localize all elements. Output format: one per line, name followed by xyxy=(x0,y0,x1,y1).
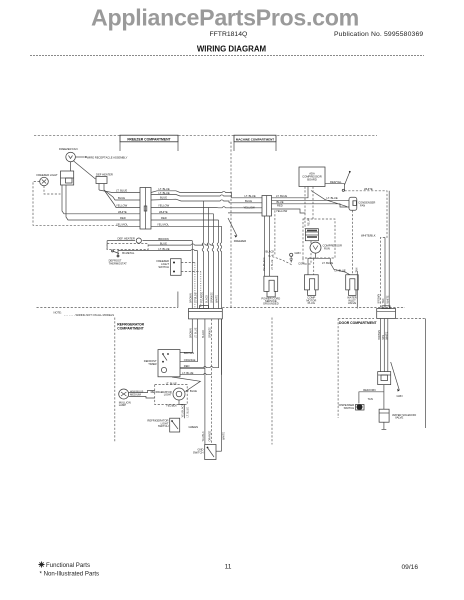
wires board to relay dashed xyxy=(305,187,313,229)
svg-text:* Non-Illustrated Parts: * Non-Illustrated Parts xyxy=(40,571,100,578)
title underline xyxy=(30,55,424,57)
svg-text:Functional Parts: Functional Parts xyxy=(46,562,90,569)
compressor plug P2 xyxy=(305,258,319,305)
svg-text:WHITE: WHITE xyxy=(222,432,225,440)
dispenser module DM1 xyxy=(378,372,391,385)
wires machine to door strip xyxy=(381,191,390,309)
svg-text:TAN: TAN xyxy=(368,397,373,401)
footer functional parts xyxy=(39,562,100,578)
refrigerator compartment label xyxy=(117,322,144,330)
cold control thermostat TH1 xyxy=(151,388,198,400)
svg-text:DEF HEATER: DEF HEATER xyxy=(96,173,113,177)
NOTE legend xyxy=(54,311,115,317)
dispenser switch SW6 xyxy=(339,403,364,410)
wire labels left of J1 xyxy=(116,189,128,227)
svg-text:PLUG: PLUG xyxy=(308,301,315,305)
svg-text:TAN: TAN xyxy=(382,298,385,303)
water solenoid valve V1 xyxy=(379,409,416,422)
svg-text:YEL/VIOL: YEL/VIOL xyxy=(116,222,128,226)
wire relay to motor xyxy=(310,241,312,244)
svg-text:RED/ORN: RED/ORN xyxy=(363,388,375,392)
svg-text:BLUE: BLUE xyxy=(160,196,167,200)
svg-text:LT. BLUE: LT. BLUE xyxy=(322,261,333,265)
wires right of J1 fanning to vertical bundle xyxy=(151,191,262,227)
svg-text:RED/YEL: RED/YEL xyxy=(330,180,342,184)
freezer compartment label box xyxy=(120,135,178,151)
svg-text:FREEZER COMPARTMENT: FREEZER COMPARTMENT xyxy=(127,137,171,141)
wire lt blue to P3 xyxy=(322,258,350,274)
wire receptacle assembly leader xyxy=(75,155,127,159)
svg-text:SWITCH: SWITCH xyxy=(344,406,355,410)
svg-text:NOTE:: NOTE: xyxy=(54,311,62,315)
svg-text:RED: RED xyxy=(184,364,190,368)
wires J2 down to power cord xyxy=(265,210,275,276)
svg-text:GREEN: GREEN xyxy=(189,425,199,429)
svg-text:LIGHT: LIGHT xyxy=(164,393,172,397)
timer wire labels xyxy=(182,351,195,375)
svg-text:YEL/BLACK: YEL/BLACK xyxy=(263,257,266,271)
svg-text:DOOR COMPARTMENT: DOOR COMPARTMENT xyxy=(339,321,378,325)
svg-text:BROWN: BROWN xyxy=(184,351,194,355)
wires right of J2 xyxy=(272,187,350,214)
wires bundle into machine compartment with labels xyxy=(228,194,262,213)
door compartment dashed box xyxy=(338,319,425,429)
defrost timer T1 xyxy=(144,350,180,377)
terminal strip TS1 xyxy=(189,306,223,319)
wire labels right of J1 xyxy=(157,187,170,227)
svg-text:FREEZER LIGHT: FREEZER LIGHT xyxy=(37,173,59,177)
svg-text:BLACK: BLACK xyxy=(266,250,275,254)
connector J2 machine compartment xyxy=(262,196,272,217)
def heater dashed enclosure xyxy=(107,241,148,250)
svg-text:VALVE: VALVE xyxy=(395,416,403,420)
svg-text:BROWN: BROWN xyxy=(158,237,168,241)
svg-text:GROUNDED: GROUNDED xyxy=(263,302,279,306)
dashed box around cold control xyxy=(155,385,188,405)
wire freezer light dashed 2 xyxy=(44,186,61,194)
svg-text:TIMER: TIMER xyxy=(148,362,156,366)
wire RED/YEL from board xyxy=(325,180,345,191)
svg-text:SWITCH: SWITCH xyxy=(193,450,204,454)
svg-text:VALVE: VALVE xyxy=(348,301,356,305)
freezer fan motor housing xyxy=(61,171,74,185)
svg-text:LT. BLUE: LT. BLUE xyxy=(327,196,338,200)
svg-text:Publication No. 5995580369: Publication No. 5995580369 xyxy=(334,31,423,38)
wire condenser fan down xyxy=(352,210,354,274)
svg-text:YELLOW: YELLOW xyxy=(116,204,128,208)
svg-text:THERMOSTAT: THERMOSTAT xyxy=(109,261,127,265)
svg-text:WHITE: WHITE xyxy=(386,331,389,339)
svg-text:WHITE: WHITE xyxy=(216,295,219,303)
mullion lamp L2 xyxy=(119,389,144,407)
svg-text:DEF. HEATER: DEF. HEATER xyxy=(118,236,135,240)
svg-text:YEL/BLK: YEL/BLK xyxy=(166,404,177,408)
svg-text:YELLOW: YELLOW xyxy=(158,204,170,208)
svg-text:LT. BLUE: LT. BLUE xyxy=(335,268,346,272)
wire lt blue to cold control xyxy=(166,377,201,392)
svg-text:BLACK: BLACK xyxy=(206,294,209,303)
svg-text:SWITCH: SWITCH xyxy=(158,424,169,428)
defrost thermostat bimetal SW2 xyxy=(109,250,135,265)
freezer fan F1 xyxy=(59,147,78,171)
svg-text:BROWN: BROWN xyxy=(190,328,193,338)
wire tan from P3 xyxy=(356,271,358,309)
vertical labels above strip2 xyxy=(378,294,390,304)
wire red/orn xyxy=(359,388,384,404)
terminal strip TS2 xyxy=(377,306,396,319)
svg-text:GRN: GRN xyxy=(295,251,301,255)
vertical labels below strip2 xyxy=(378,330,389,340)
svg-text:BLUE: BLUE xyxy=(277,200,284,204)
svg-text:RELAY: RELAY xyxy=(308,218,311,226)
svg-text:LT. BLUE: LT. BLUE xyxy=(186,407,189,418)
svg-text:ORANGE: ORANGE xyxy=(209,430,212,441)
wire lt blue from thermostat xyxy=(118,247,197,257)
svg-text:BLUE: BLUE xyxy=(160,241,167,245)
freezer light switch SW3 xyxy=(156,259,200,309)
svg-text:LT. BLUE: LT. BLUE xyxy=(116,189,127,193)
def heater element H1 xyxy=(107,236,192,243)
svg-text:LT. BLUE: LT. BLUE xyxy=(158,247,169,251)
svg-text:FREEZER FAN: FREEZER FAN xyxy=(59,147,78,151)
svg-text:WIRE RECEPTACLE ASSEMBLY: WIRE RECEPTACLE ASSEMBLY xyxy=(87,155,128,159)
ground GRN junction xyxy=(290,251,301,262)
svg-text:FREEZER: FREEZER xyxy=(234,239,247,243)
wire freezer light dashed xyxy=(33,182,118,226)
svg-text:BLUE: BLUE xyxy=(245,199,252,203)
machine compartment label box xyxy=(234,135,276,151)
svg-text:LT. BLUE: LT. BLUE xyxy=(159,191,170,195)
svg-text:LT. BLUE: LT. BLUE xyxy=(271,259,274,270)
svg-text:RUN: RUN xyxy=(324,247,330,251)
svg-text:COM: COM xyxy=(298,262,305,266)
white wire right xyxy=(222,319,226,440)
machine compartment left dashed boundary xyxy=(230,142,232,308)
refrigerator compartment dashed box xyxy=(114,318,116,443)
relay dashed enclosure xyxy=(303,219,335,258)
svg-text:YEL/VIOL: YEL/VIOL xyxy=(157,223,169,227)
svg-text:WHITE: WHITE xyxy=(159,210,168,214)
freezer arrow note xyxy=(228,218,246,243)
svg-text:AppliancePartsPros.com: AppliancePartsPros.com xyxy=(91,5,359,31)
svg-text:BI-METAL: BI-METAL xyxy=(122,251,135,255)
dashed wire to ground xyxy=(268,256,291,265)
svg-text:- - - - - - - WIRING NOT ON: - - - - - - - WIRING NOT ON ALL MODELS xyxy=(64,313,114,317)
wire below solenoid xyxy=(382,422,387,429)
svg-text:WHITE/BLK: WHITE/BLK xyxy=(361,234,376,238)
svg-text:11: 11 xyxy=(225,564,232,571)
svg-text:ORANGE: ORANGE xyxy=(209,327,212,338)
wire board diagonal to capacitor xyxy=(311,191,347,207)
svg-text:WHITE: WHITE xyxy=(118,210,127,214)
svg-text:COMPARTMENT: COMPARTMENT xyxy=(117,326,144,330)
ADA compressor board U1 xyxy=(299,167,325,187)
svg-text:MACHINE COMPARTMENT: MACHINE COMPARTMENT xyxy=(236,137,274,141)
lower boundary dashed line left xyxy=(37,307,178,309)
svg-text:BLUE: BLUE xyxy=(118,196,125,200)
wire motor bottom xyxy=(308,253,331,258)
svg-text:BROWN: BROWN xyxy=(378,330,381,340)
refrigerator light switch SW4 xyxy=(147,418,179,432)
svg-text:LT. BLUE: LT. BLUE xyxy=(276,194,287,198)
svg-text:LT. BLUE: LT. BLUE xyxy=(182,371,193,375)
timer wires right xyxy=(180,368,212,374)
svg-text:RED: RED xyxy=(161,216,167,220)
wires below strip xyxy=(180,319,222,451)
vertical wire bundle B1 xyxy=(192,201,221,309)
svg-text:WHITE: WHITE xyxy=(364,187,373,191)
vertical wires to light switch xyxy=(182,404,190,419)
freezer light L1 xyxy=(37,173,59,186)
svg-text:YELLOW: YELLOW xyxy=(244,205,256,209)
wire bundle left of connector J1 xyxy=(62,185,140,226)
yel/blk label xyxy=(166,400,185,408)
svg-text:RED: RED xyxy=(277,203,283,207)
svg-text:GRN: GRN xyxy=(397,394,403,398)
wire dispenser box down xyxy=(383,385,385,410)
wires mullion to control xyxy=(129,390,155,398)
water inlet valve plug P3 xyxy=(346,267,359,305)
svg-text:ORANGE: ORANGE xyxy=(184,358,196,362)
gnd switch SW5 xyxy=(193,445,216,460)
svg-text:YEL/BLK: YEL/BLK xyxy=(202,431,205,441)
svg-text:YEL/BLACK: YEL/BLACK xyxy=(182,404,185,418)
svg-text:MEDIUM: MEDIUM xyxy=(130,393,142,397)
dashed wire WHITE loop xyxy=(345,187,388,309)
compressor motor M1 xyxy=(310,242,342,253)
wire fan-to-heater diagonal xyxy=(73,161,96,180)
power cord plug P1 xyxy=(261,276,280,306)
svg-text:LT. BLUE: LT. BLUE xyxy=(159,187,170,191)
svg-text:WIRING DIAGRAM: WIRING DIAGRAM xyxy=(197,45,267,54)
switch SW1 top right xyxy=(342,171,351,191)
svg-text:BOARD: BOARD xyxy=(307,178,317,182)
vertical labels below strip xyxy=(190,327,212,338)
svg-text:RED: RED xyxy=(120,216,126,220)
svg-text:SWITCH: SWITCH xyxy=(158,265,169,269)
svg-text:LAMP: LAMP xyxy=(119,403,127,407)
svg-text:YELLOW: YELLOW xyxy=(276,209,288,213)
wire to grn arrow xyxy=(391,362,403,398)
svg-text:LT. BLUE: LT. BLUE xyxy=(245,194,256,198)
svg-text:BROWN: BROWN xyxy=(378,294,381,304)
svg-text:ORANGE: ORANGE xyxy=(211,292,214,303)
svg-text:FAN: FAN xyxy=(360,203,365,207)
top compartment boundary dashed line xyxy=(34,135,377,137)
svg-text:TAN: TAN xyxy=(382,335,385,340)
svg-text:LT. BLUE: LT. BLUE xyxy=(195,327,198,338)
condenser fan C1 xyxy=(349,197,375,210)
svg-text:09/16: 09/16 xyxy=(402,564,419,571)
svg-text:LT. BLUE: LT. BLUE xyxy=(166,382,177,386)
svg-text:WHITE: WHITE xyxy=(386,295,389,303)
svg-text:BLACK: BLACK xyxy=(202,329,205,338)
svg-text:FFTR1814Q: FFTR1814Q xyxy=(210,31,248,38)
wire right of gnd switch xyxy=(216,450,222,452)
wire blue xyxy=(148,241,214,245)
lower boundary dashed line right xyxy=(222,307,405,309)
compressor relay K1 xyxy=(305,229,318,241)
boundary tick xyxy=(177,292,179,308)
wires below strip2 xyxy=(381,319,388,372)
def heater connector DH xyxy=(96,173,113,190)
vertical bundle labels above strip xyxy=(190,291,219,303)
connector J1 xyxy=(140,188,151,230)
svg-text:BROWN: BROWN xyxy=(190,293,193,303)
